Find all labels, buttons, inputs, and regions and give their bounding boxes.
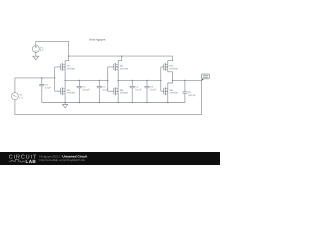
capacitor C4 xyxy=(130,80,135,102)
wire M2 source xyxy=(117,70,119,81)
V2 label xyxy=(19,94,23,100)
wire ground rail xyxy=(42,102,185,104)
node rail M2 drain junction xyxy=(121,55,122,56)
wire M3 drain dogleg xyxy=(168,56,173,64)
wire stage1 output line xyxy=(65,79,108,81)
wire V2 top lead to gate bus xyxy=(15,78,55,93)
wire stage2 output line xyxy=(118,79,161,81)
footer bar xyxy=(0,152,220,165)
wire M5 drain xyxy=(117,80,119,88)
capacitor C5 xyxy=(144,80,149,102)
ground G2 xyxy=(62,103,67,108)
node stage2 line start xyxy=(118,80,119,81)
node gnd M6 source xyxy=(167,102,168,103)
wire M2 drain dogleg xyxy=(118,56,122,64)
node stage1 to gate2 xyxy=(107,80,108,81)
node C4 tap xyxy=(132,80,133,81)
node C5 tap xyxy=(146,80,147,81)
capacitor C2 xyxy=(77,80,82,102)
wire M6 drain dogleg xyxy=(168,80,173,88)
C3 label xyxy=(102,86,109,92)
voltage source V2 xyxy=(11,93,18,100)
node gnd C2 xyxy=(79,102,80,103)
svg-text:LAB: LAB xyxy=(26,159,37,164)
M5 label xyxy=(120,89,129,95)
M2 label xyxy=(120,65,129,71)
node gate bus stage1 xyxy=(54,77,55,78)
transistor M1 xyxy=(55,63,65,71)
svg-text:10 µF: 10 µF xyxy=(150,88,157,91)
capacitor C6 xyxy=(182,80,187,102)
wire V1 feed to rail xyxy=(36,41,69,56)
M6 label xyxy=(170,89,179,95)
node C6 tap xyxy=(184,80,185,81)
capacitor C1 xyxy=(39,78,44,103)
transistor M3 xyxy=(161,63,168,71)
C4 label xyxy=(135,86,142,92)
voltage source V1 xyxy=(32,45,39,52)
M4 label xyxy=(67,89,76,95)
node gnd C3 xyxy=(99,102,100,103)
wire M5 source xyxy=(117,94,119,103)
node gnd M5 source xyxy=(118,102,119,103)
wire gate vertical stage1 xyxy=(54,67,56,91)
ground G1 xyxy=(33,56,39,59)
wire V1 top lead xyxy=(35,41,37,45)
transistor M2 xyxy=(108,63,118,71)
svg-text:5 V: 5 V xyxy=(40,49,44,52)
capacitor C3 xyxy=(97,80,102,102)
svg-text:http://circuitlab.com/c6hq42p8: http://circuitlab.com/c6hq42p87rz3e xyxy=(40,158,86,162)
transistor M6 xyxy=(161,87,168,95)
svg-text:2N7000: 2N7000 xyxy=(67,92,76,95)
node C1 tap xyxy=(41,77,42,78)
C2 label xyxy=(82,86,90,92)
node C2 tap xyxy=(79,80,80,81)
node rail V1 junction xyxy=(68,55,69,56)
transistor M4 xyxy=(55,87,65,95)
svg-text:100 µF: 100 µF xyxy=(82,88,90,91)
svg-text:10 µF: 10 µF xyxy=(135,88,142,91)
node gnd C4 xyxy=(132,102,133,103)
wire M1 source xyxy=(64,70,66,81)
svg-text:2N7000: 2N7000 xyxy=(170,92,179,95)
M1 label xyxy=(67,65,76,71)
speaker flag SPK1 xyxy=(202,74,210,80)
node stage2 to gate3 xyxy=(160,80,161,81)
svg-text:1 V: 1 V xyxy=(19,96,23,99)
wire M1 drain dogleg xyxy=(65,56,69,64)
wire M4 drain xyxy=(64,80,66,88)
node gnd C5 xyxy=(146,102,147,103)
svg-text:Khoi Nguyen: Khoi Nguyen xyxy=(89,38,105,42)
C5 label xyxy=(150,86,157,92)
svg-text:100 µF: 100 µF xyxy=(188,94,196,97)
wire stage3 output line xyxy=(173,79,202,81)
wire V1 bottom lead xyxy=(35,52,37,56)
C6 label xyxy=(188,91,196,97)
M3 label xyxy=(170,65,179,71)
svg-text:2N7000: 2N7000 xyxy=(170,67,179,70)
C1 label xyxy=(45,84,52,90)
node C3 tap xyxy=(99,80,100,81)
node stage3 line start xyxy=(172,80,173,81)
svg-text:2N7000: 2N7000 xyxy=(67,67,76,70)
transistor M5 xyxy=(108,87,118,95)
node gnd M4 source xyxy=(64,102,65,103)
wire V2 bottom return xyxy=(15,80,202,114)
svg-text:10 µF: 10 µF xyxy=(45,86,52,89)
footer logo wave xyxy=(9,159,25,162)
wire M4 source xyxy=(64,94,66,103)
wire gate vertical stage2 xyxy=(107,67,109,91)
wire M6 source xyxy=(167,94,169,103)
wire M3 source dogleg xyxy=(168,70,173,81)
V1 label xyxy=(40,47,44,53)
wire gate vertical stage3 xyxy=(160,67,162,91)
node stage1 line start xyxy=(64,80,65,81)
svg-text:2N7000: 2N7000 xyxy=(120,92,129,95)
annotation Khoi Nguyen xyxy=(89,38,105,42)
svg-text:2N7000: 2N7000 xyxy=(120,67,129,70)
wire VDD rail xyxy=(69,55,173,57)
